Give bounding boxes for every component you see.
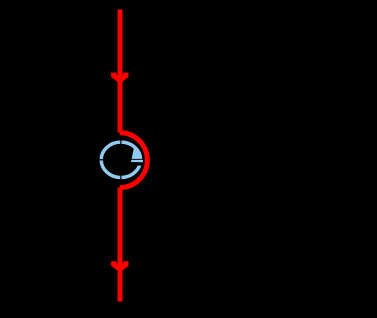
current direction arrowhead (bottom) bbox=[111, 261, 128, 272]
wire: top vertical red current path bbox=[117, 9, 122, 132]
current source I1: circle symbol bbox=[98, 139, 144, 181]
current direction arrowhead (top) bbox=[111, 73, 128, 84]
wire: bottom vertical red current path bbox=[117, 188, 122, 302]
current source rotation arrowhead bbox=[131, 146, 144, 162]
wire: semicircular bypass arc around current source bbox=[120, 133, 148, 188]
